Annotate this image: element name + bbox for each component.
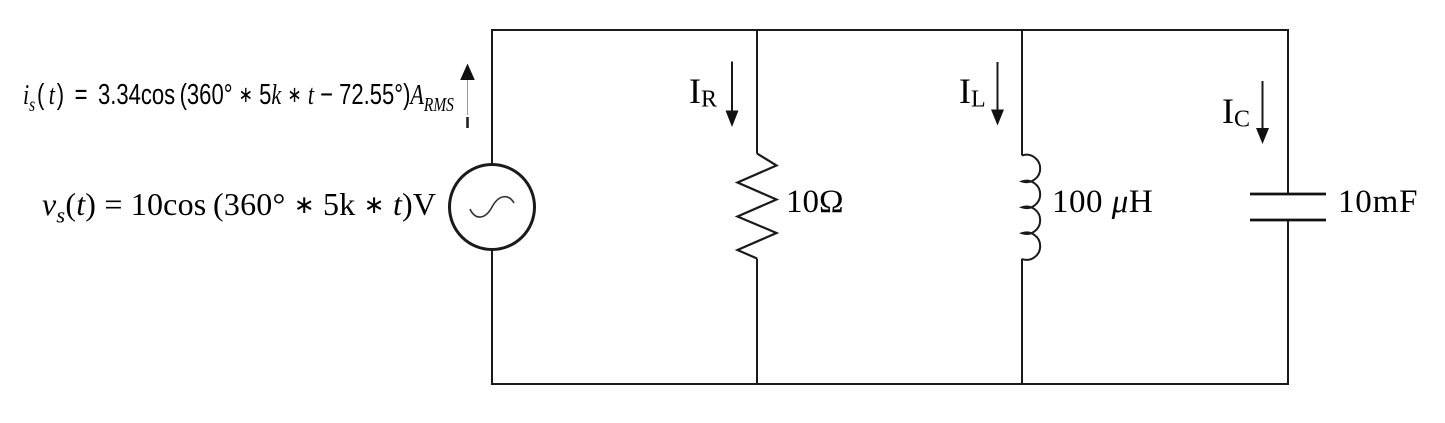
label: current I_C: [1222, 93, 1250, 132]
label: inductor value 100 uH: [1052, 186, 1153, 219]
label: source current equation i_s(t): [23, 79, 454, 117]
arrow: inductor current I_L pointing down: [997, 62, 999, 111]
wire: left branch lower segment (source bottom lead): [491, 250, 493, 385]
inductor L 100uH coil (4 bumps): [1022, 155, 1040, 260]
wire: top rail of parallel loop: [492, 29, 1289, 31]
wire: capacitor branch bottom lead: [1287, 221, 1289, 385]
wire: inductor branch top lead: [1021, 29, 1023, 156]
source V1 sine symbol: [470, 197, 514, 217]
arrow: capacitor current I_C pointing down: [1262, 81, 1264, 129]
label: current I_R: [689, 73, 717, 112]
label: current I_L: [959, 73, 986, 112]
label: source voltage equation v_s(t): [42, 186, 436, 228]
label: resistor value 10 ohm: [786, 186, 844, 219]
capacitor C 10mF top plate: [1250, 193, 1326, 196]
wire: left branch upper segment (source top lead): [491, 29, 493, 164]
wire: inductor branch bottom lead: [1021, 259, 1023, 385]
arrow: source current i_s pointing up: [460, 64, 475, 81]
wire: resistor branch top lead: [756, 29, 758, 154]
wire: capacitor branch top lead (right border): [1287, 29, 1289, 193]
arrow: resistor current I_R pointing down: [731, 62, 733, 113]
wire: bottom rail of parallel loop: [492, 383, 1289, 385]
source V1: AC source circle: [450, 165, 535, 250]
resistor R 10ohm zigzag: [738, 154, 777, 259]
wire: resistor branch bottom lead: [756, 259, 758, 386]
label: capacitor value 10mF: [1338, 186, 1418, 219]
capacitor C 10mF bottom plate: [1250, 219, 1326, 222]
